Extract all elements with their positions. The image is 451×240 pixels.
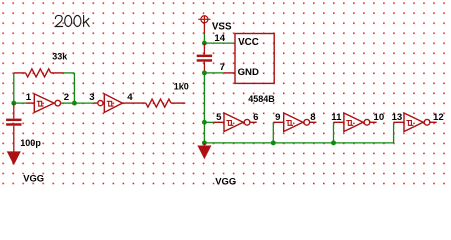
svg-text:10: 10 — [374, 112, 385, 123]
ground VGG right — [198, 146, 210, 158]
junction node VSS — [202, 41, 207, 46]
inverter gate U1C pins 5-6 — [214, 113, 257, 132]
junction node GND1 — [202, 70, 207, 75]
ground VGG right stub — [203, 143, 205, 146]
junction node bus 2 — [331, 140, 336, 145]
svg-text:12: 12 — [433, 112, 444, 123]
label 200k — [55, 15, 89, 26]
svg-text:100p: 100p — [20, 138, 41, 148]
wire net FB to inverter2 — [74, 102, 93, 104]
svg-text:5: 5 — [216, 112, 222, 123]
wire net FB top right — [64, 72, 75, 74]
wire net VSS vertical — [203, 33, 205, 43]
svg-text:7: 7 — [220, 62, 225, 73]
wire net GND bus — [204, 142, 393, 144]
capacitor C2 decoupling pin bottom — [203, 62, 205, 73]
resistor 33k — [14, 69, 64, 77]
junction node OSC — [11, 101, 16, 106]
wire net OSC left vertical — [13, 73, 15, 103]
power box 4584B VCC GND — [235, 34, 274, 84]
svg-text:VGG: VGG — [215, 176, 236, 187]
wire net OSC to inverter input — [14, 102, 26, 104]
supply VSS symbol — [198, 16, 210, 34]
wire net VSS to VCC pin — [204, 42, 235, 44]
junction node bus 1 — [271, 140, 276, 145]
svg-text:8: 8 — [310, 112, 316, 123]
svg-text:3: 3 — [89, 92, 94, 103]
svg-text:13: 13 — [392, 112, 403, 123]
svg-text:9: 9 — [275, 112, 280, 123]
svg-text:GND: GND — [238, 67, 259, 78]
wire net FB inverter1 out — [61, 102, 75, 104]
pin stub GND — [224, 72, 235, 74]
svg-text:6: 6 — [253, 112, 258, 123]
inverter gate U1A pins 1-2 — [26, 94, 61, 113]
svg-text:14: 14 — [214, 33, 225, 44]
wire net GND to GND pin — [204, 72, 224, 74]
wire net GND riser to pin 13 — [393, 122, 395, 143]
svg-text:1: 1 — [26, 92, 32, 103]
capacitor C 100p — [6, 120, 21, 125]
junction node FB — [72, 101, 77, 106]
inverter gate U1D pins 9-8 — [273, 113, 316, 132]
capacitor C2 decoupling pin top — [203, 43, 205, 55]
svg-text:VCC: VCC — [238, 37, 259, 48]
capacitor C 100p pin bottom — [13, 126, 15, 152]
svg-text:2: 2 — [64, 92, 69, 103]
svg-text:VGG: VGG — [23, 172, 44, 183]
svg-text:4584B: 4584B — [248, 94, 275, 104]
capacitor C2 decoupling — [197, 56, 212, 61]
svg-text:1k0: 1k0 — [174, 82, 189, 92]
wire net GND riser to pin 11 — [333, 122, 335, 143]
inverter gate U1B pins 3-4 — [94, 94, 146, 113]
inverter gate U1E pins 11-10 — [334, 113, 377, 132]
capacitor C 100p pin top — [13, 103, 15, 119]
junction node GND3 — [202, 140, 207, 145]
wire net GND vertical — [203, 73, 205, 143]
ground VGG left — [8, 152, 20, 164]
svg-text:4: 4 — [127, 92, 133, 103]
wire net GND to inverter A input — [204, 121, 213, 123]
inverter gate U1F pins 13-12 — [394, 113, 437, 132]
wire net GND riser to pin 9 — [272, 122, 274, 143]
svg-text:11: 11 — [331, 112, 342, 123]
svg-text:VSS: VSS — [212, 21, 232, 32]
wire net FB right vertical — [73, 73, 75, 103]
resistor 1k0 — [146, 99, 186, 107]
svg-text:33k: 33k — [52, 51, 68, 61]
junction node GND2 — [202, 120, 207, 125]
